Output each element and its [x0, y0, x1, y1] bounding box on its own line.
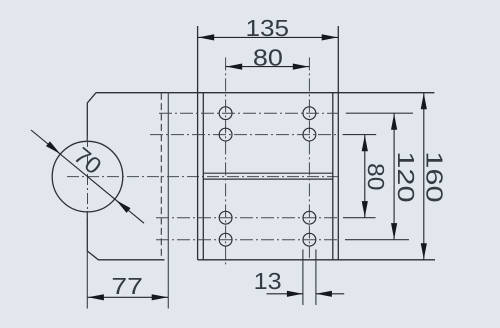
dimension 77 line	[87, 296, 168, 298]
hole row 4 extension (120 dim)	[345, 239, 409, 241]
hole B1	[303, 107, 316, 120]
plate inner-left edge	[202, 93, 204, 260]
arrow d70 lower (points up-left onto circle)	[114, 198, 130, 213]
plate mid joint lower line	[203, 178, 332, 180]
body outline (left bracket with chamfers)	[87, 93, 96, 142]
hole row 2 centerline	[150, 134, 339, 136]
hole B2	[303, 128, 316, 141]
hole row 1 extension (120 dim)	[346, 112, 413, 114]
arrow 77 left	[88, 294, 104, 300]
dimension 80 top line	[226, 66, 310, 68]
hole B4	[303, 233, 316, 246]
hole row 3 extension (80 dim)	[343, 217, 376, 219]
dimension 13 line left part	[267, 293, 303, 295]
dimension 120 line	[393, 113, 395, 240]
svg-text:160: 160	[422, 151, 448, 202]
svg-text:77: 77	[111, 273, 143, 299]
svg-text:80: 80	[253, 44, 283, 70]
plate outer-left edge + 135 extension	[197, 26, 199, 260]
plate outer-right edge + 135 extension	[337, 26, 339, 260]
dimension 13 line right part	[316, 293, 344, 295]
arrow 135 left	[198, 34, 214, 40]
svg-text:80: 80	[363, 163, 389, 191]
hole A2	[219, 128, 232, 141]
hidden edge (dashed) in body	[160, 93, 162, 260]
arrow 120 bottom	[391, 223, 397, 239]
hole B3	[303, 211, 316, 224]
dimension 13 extension line right	[315, 249, 317, 305]
hole A1	[219, 107, 232, 120]
dimension 80 right line	[364, 135, 366, 218]
arrow 13 left (points right)	[287, 291, 303, 297]
arrow 135 right	[322, 34, 338, 40]
hole row 2 extension (80 dim)	[343, 134, 377, 136]
circle vertical centerline	[87, 136, 89, 218]
hole row 3 centerline	[156, 217, 339, 219]
arrow 160 top	[421, 93, 427, 109]
body right edge + 77 extension line	[167, 93, 169, 309]
hole A4	[219, 233, 232, 246]
77 left extension line	[86, 251, 88, 309]
dimension 160 line	[423, 93, 425, 260]
circle horizontal centerline (extends across plate)	[67, 176, 341, 178]
top edge line (body + plate top + 160 extension)	[96, 92, 434, 94]
body left edge lower part + bottom chamfer + bottom edge	[87, 211, 164, 260]
svg-text:135: 135	[246, 15, 290, 41]
arrow 80 top right	[293, 64, 309, 70]
plate mid joint upper line	[203, 172, 332, 174]
plate bottom edge + 160 extension	[198, 259, 435, 261]
arrow 80 top left	[226, 64, 242, 70]
arrow 77 right	[152, 294, 168, 300]
arrow 120 top	[391, 114, 397, 130]
arrow 13 right (points left)	[316, 291, 332, 297]
dimension 13 extension line left	[302, 249, 304, 305]
arrow d70 upper (points down-right onto circle)	[46, 141, 62, 156]
hole A3	[219, 211, 232, 224]
arrow 160 bottom	[421, 243, 427, 259]
diameter 70 leader line	[31, 130, 144, 223]
boss circle d70	[52, 141, 123, 212]
hole row 1 centerline	[159, 112, 339, 114]
svg-text:120: 120	[393, 151, 419, 202]
plate inner-right edge	[332, 93, 334, 260]
svg-text:13: 13	[254, 268, 282, 294]
hole column 1 centerline	[225, 57, 227, 267]
arrow 80 right bottom	[362, 201, 368, 217]
arrow 80 right top	[362, 135, 368, 151]
hole row 4 centerline	[156, 239, 339, 241]
hole column 2 centerline	[308, 57, 310, 258]
dimension 135 line	[198, 36, 339, 38]
